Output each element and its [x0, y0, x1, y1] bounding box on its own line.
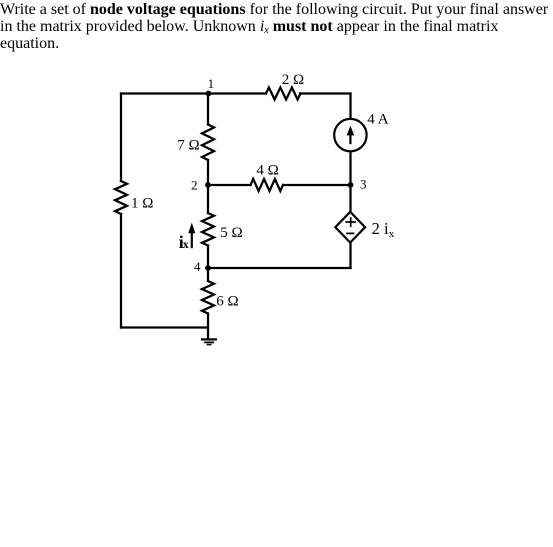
node 4: [194, 259, 211, 274]
svg-text:1 Ω: 1 Ω: [131, 195, 153, 211]
wire current source to node 3: [349, 152, 351, 185]
resistor 7Ω body: [202, 125, 214, 161]
current source 4A circle: [334, 119, 366, 151]
wire right vertical to current source: [349, 94, 351, 119]
wire node1 to 7Ω: [207, 94, 209, 125]
wire top right (2Ω to right corner): [300, 92, 351, 94]
resistor 5Ω body: [202, 213, 214, 246]
wire node2 to 5Ω: [207, 185, 209, 213]
wire left vertical upper segment: [120, 94, 122, 182]
wire 6Ω to ground: [207, 314, 209, 339]
wire node2 to 4Ω: [208, 184, 251, 186]
svg-text:4: 4: [194, 259, 201, 274]
wire 7Ω to node 2: [207, 160, 209, 185]
node 1: [206, 76, 215, 96]
dependent source 2ix diamond: [335, 212, 365, 243]
resistor 1Ω body: [115, 181, 127, 214]
svg-text:4 A: 4 A: [367, 112, 388, 128]
wire node3 to dependent source: [349, 185, 351, 212]
ground: [201, 339, 217, 344]
wire dependent source to bottom right corner: [349, 243, 351, 268]
dependent source plus sign: [345, 217, 356, 227]
node 2: [191, 178, 211, 193]
dependent source minus sign: [346, 232, 354, 234]
svg-text:2 Ω: 2 Ω: [282, 72, 304, 88]
svg-text:3: 3: [360, 176, 367, 191]
current source arrow: [347, 126, 355, 145]
resistor 2Ω body: [266, 88, 301, 100]
wire left vertical lower segment: [120, 214, 122, 328]
svg-text:4 Ω: 4 Ω: [256, 162, 278, 178]
wire bottom horizontal: [121, 326, 208, 328]
node 3: [348, 176, 367, 191]
current ix arrow: [188, 223, 195, 249]
svg-text:2 ix: 2 ix: [372, 219, 395, 240]
wire bottom right horizontal (node4 wire): [208, 267, 351, 269]
svg-text:1: 1: [208, 76, 215, 91]
svg-text:5 Ω: 5 Ω: [220, 225, 242, 241]
svg-text:ix: ix: [179, 232, 189, 252]
svg-text:6 Ω: 6 Ω: [216, 294, 238, 310]
resistor 6Ω body: [202, 281, 214, 314]
resistor 4Ω body: [251, 179, 284, 191]
wire top-left horizontal (node1 to left corner): [121, 92, 208, 94]
wire top middle (node1 to 2Ω): [208, 92, 266, 94]
svg-text:7 Ω: 7 Ω: [177, 138, 199, 154]
wire 5Ω to node 4: [207, 246, 209, 269]
svg-text:2: 2: [191, 178, 198, 193]
wire 4Ω to node 3: [283, 184, 351, 186]
wire node4 to 6Ω: [207, 268, 209, 281]
